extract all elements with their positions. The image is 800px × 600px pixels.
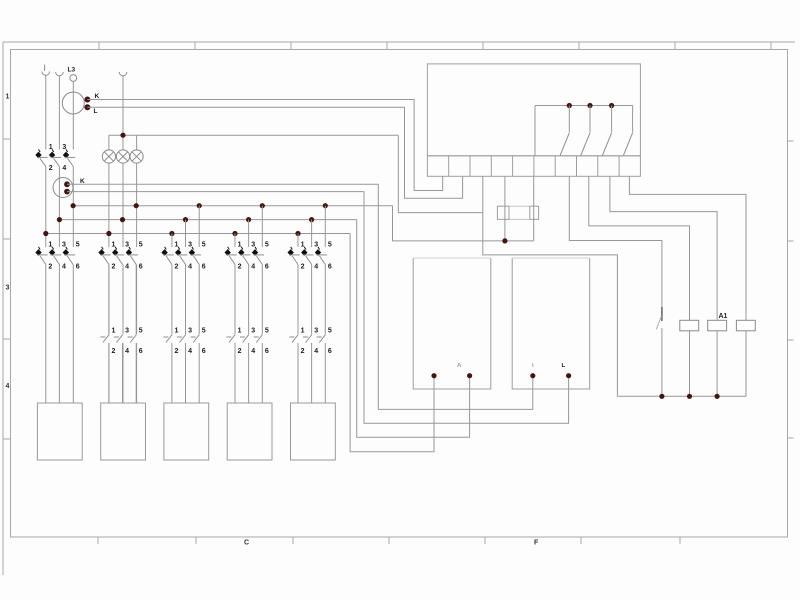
svg-text:4: 4 [251,264,255,271]
junction dot contact 1 [567,103,572,108]
svg-text:2: 2 [112,348,116,355]
coil K1 [680,320,699,331]
junction dot fuse node [502,238,507,243]
svg-text:2: 2 [238,348,242,355]
contactor K2 pole 1 [103,335,109,343]
wire T2 L to meter [67,192,569,424]
contactor K5 pole 3 [319,335,325,343]
contactor K5 pole 1 [292,335,298,343]
svg-text:2: 2 [175,264,179,271]
contactor K4 pole 3 [256,335,262,343]
svg-text:1: 1 [175,328,179,335]
svg-text:2: 2 [49,165,53,172]
svg-text:2: 2 [238,264,242,271]
load box M1 [37,403,82,460]
wire phase L3 vertical [72,81,74,149]
svg-text:5: 5 [265,328,269,335]
wire to load [198,343,200,403]
aux contact [656,316,661,330]
terminal dot P1 a [431,373,436,378]
wire group 4 pole 1 mid [234,265,236,335]
svg-text:3: 3 [188,241,192,248]
load box M5 [291,403,336,460]
junction dot bus L1 / group 3 [169,231,174,236]
breaker Q4 pole 3 [189,249,195,256]
wire stub group 3 pole 2 [185,220,187,247]
breaker Q4 pole 2 [175,249,181,256]
svg-text:3: 3 [188,328,192,335]
wire group 4 pole 3 mid [261,265,263,335]
wire lamp1 drop [108,135,110,150]
junction dot bus L3 / group 4 [260,203,265,208]
bus phase L2 horizontal [59,219,356,221]
breaker Q6 pole 1 [288,249,294,256]
svg-text:5: 5 [139,241,143,248]
svg-text:3: 3 [6,285,10,292]
breaker Q1 pole 3 [63,152,69,159]
wire stub group 4 pole 3 [261,206,263,247]
wire stub group 5 pole 3 [324,206,326,247]
wire fuse F1 vertical [504,176,506,241]
coil K2 [708,320,727,331]
load box M3 [164,403,209,460]
indicator lamp H1 [102,150,115,163]
svg-text:1: 1 [6,94,10,101]
wire strip to coil K1 [589,176,690,320]
indicator lamp H2 [116,150,129,163]
svg-text:A1: A1 [719,313,728,320]
wire group 5 pole 3 mid [324,265,326,335]
wire bus L2 to meter box 1 [357,220,470,438]
coil common bus [617,395,746,397]
wire fuse F2 vertical [533,176,535,241]
control unit box U1 [427,64,640,156]
load box M4 [227,403,272,460]
svg-text:6: 6 [202,348,206,355]
svg-text:L: L [94,108,98,115]
svg-text:2: 2 [112,264,116,271]
breaker Q4 pole 1 [161,249,167,256]
breaker Q5 pole 3 [252,249,258,256]
wire phase L2 vertical [58,76,60,150]
svg-text:4: 4 [125,264,129,271]
wire bus L1 to meter box 1 [350,234,434,452]
fuse holder F1 body [509,205,530,207]
svg-text:3: 3 [62,241,66,248]
wire T2 K to meter [67,184,533,409]
svg-text:L: L [562,363,566,369]
svg-text:4: 4 [314,264,318,271]
svg-text:6: 6 [202,264,206,271]
wire stub group 4 pole 1 [234,234,236,248]
wire stub group 5 pole 1 [297,234,299,248]
wire coil K1 bottom [689,331,691,397]
svg-text:4: 4 [6,383,10,390]
bottom ruler ticks [98,537,680,544]
junction dot bus L2 / group 5 [309,217,314,222]
lamp bus wire [109,134,398,136]
junction dot bus L3 / group 3 [197,203,202,208]
contact S3 [611,106,613,133]
current transformer T2 [53,178,73,198]
junction dot bus L1 / group 5 [295,231,300,236]
wire terminal strip to coil return bus [483,176,618,396]
wire T1 L to terminal strip [87,107,462,198]
svg-text:6: 6 [139,348,143,355]
internal bus wire [535,105,633,107]
terminal K of T2 [64,181,70,187]
wire strip to coil K3 [629,176,746,320]
svg-text:4: 4 [188,348,192,355]
svg-text:1: 1 [112,328,116,335]
load box M2 [101,403,146,460]
wire lamp3 drop [136,135,138,150]
svg-text:6: 6 [328,348,332,355]
svg-text:4: 4 [251,348,255,355]
wire to load [122,343,124,403]
svg-text:3: 3 [125,328,129,335]
terminal strip X1 [427,156,640,177]
junction dot bus L1 / group 4 [232,231,237,236]
left ruler ticks [3,139,11,439]
bus phase L1 horizontal [46,233,350,235]
wire bus L3 tail to fuse node [393,206,534,241]
contact S2 [589,106,591,133]
indicator lamp H3 [130,150,143,163]
wire group 4 pole 2 mid [248,265,250,335]
wire to load [297,343,299,403]
junction dot bus L3 / group 2 [134,203,139,208]
breaker Q3 pole 1 [98,249,104,256]
breaker Q5 pole 1 [225,249,231,256]
contactor K3 pole 2 [180,335,186,343]
svg-text:3: 3 [125,241,129,248]
wire group 5 pole 1 mid [297,265,299,335]
junction dot coil bus 1 [659,394,664,399]
breaker Q1 pole 1 [35,152,41,159]
svg-text:2: 2 [48,264,52,271]
junction dot bus L1 / group 2 [106,231,111,236]
svg-text:C: C [244,540,249,547]
wire to load [248,343,250,403]
terminal L1 [42,72,50,76]
junction dot bus L3 / group 1 [71,203,76,208]
drawing frame inner border [11,50,788,538]
bus phase L3 horizontal [73,205,392,207]
terminal N [119,72,127,76]
junction dot bus L3 / group 5 [323,203,328,208]
junction dot bus L2 / group 1 [57,217,62,222]
contact S1 [568,106,570,133]
svg-text:6: 6 [265,264,269,271]
svg-text:A: A [457,363,462,369]
wire to load [261,343,263,403]
wire strip to aux contact [569,176,662,321]
fuse holder F1 left cap [497,206,509,219]
coil K3 [736,320,755,331]
svg-text:2: 2 [175,348,179,355]
svg-text:4: 4 [125,348,129,355]
wire stub group 5 pole 2 [311,220,313,247]
wire to load [324,343,326,403]
contactor K5 pole 2 [306,335,312,343]
svg-text:5: 5 [328,328,332,335]
wire strip to coil K2 [610,176,717,320]
drawing frame outer top ruler line [3,41,795,43]
junction dot contact 2 [587,103,592,108]
wire group 2 pole 1 mid [108,265,110,335]
wire internal bus drop [534,106,536,156]
wire coil K3 bottom [745,331,747,397]
wire to load [185,343,187,403]
wire stub group 3 pole 3 [198,206,200,247]
top ruler ticks [99,42,771,50]
terminal dot P2 a [530,373,535,378]
terminal dot P1 b [467,373,472,378]
contact S4 [632,106,634,133]
contactor K3 pole 3 [193,335,199,343]
wire group 3 pole 2 mid [185,265,187,335]
wire group 3 pole 3 mid [198,265,200,335]
svg-text:6: 6 [328,264,332,271]
meter box P1 [413,258,491,389]
contactor K4 pole 2 [243,335,249,343]
breaker Q3 pole 3 [126,249,132,256]
breaker Q1 pole 2 [49,152,55,159]
wire to load [234,343,236,403]
svg-text:L3: L3 [68,67,76,74]
svg-text:K: K [95,93,100,100]
svg-text:5: 5 [139,328,143,335]
wire coil K2 bottom [716,331,718,397]
junction dot bus L2 / group 4 [246,217,251,222]
svg-text:4: 4 [314,348,318,355]
svg-text:3: 3 [251,241,255,248]
breaker Q2 pole 2 [49,249,55,256]
svg-text:6: 6 [76,264,80,271]
wire to load [311,343,313,403]
svg-text:6: 6 [139,264,143,271]
junction dot coil bus 2 [687,394,692,399]
wire group 5 pole 2 mid [311,265,313,335]
svg-text:6: 6 [265,348,269,355]
junction dot lamp bus / neutral [120,133,125,138]
breaker Q5 pole 2 [238,249,244,256]
svg-text:5: 5 [202,241,206,248]
drawing frame outer left ruler line [2,42,4,575]
svg-text:2: 2 [301,348,305,355]
contactor K2 pole 2 [117,335,123,343]
terminal L of T1 [84,104,90,110]
right ruler ticks [788,141,794,438]
junction dot bus L2 / group 2 [120,217,125,222]
wire group 3 pole 1 mid [171,265,173,335]
terminal L of T2 [64,189,70,195]
current transformer T1 [62,92,84,114]
terminal dot P2 b [566,373,571,378]
svg-text:5: 5 [265,241,269,248]
breaker Q6 pole 3 [315,249,321,256]
svg-text:1: 1 [301,328,305,335]
svg-text:5: 5 [76,241,80,248]
junction dot bus L2 / group 3 [183,217,188,222]
contactor K2 pole 3 [130,335,136,343]
breaker Q2 pole 1 [35,249,41,256]
breaker Q6 pole 2 [301,249,307,256]
terminal K of T1 [84,97,90,103]
svg-text:2: 2 [301,264,305,271]
terminal L2 [56,72,64,76]
fuse holder F1 right cap [530,206,539,219]
wire to load [135,343,137,403]
junction dot bus L1 / group 1 [43,231,48,236]
contactor K3 pole 1 [166,335,172,343]
wire stub group 3 pole 1 [171,234,173,248]
contactor K4 pole 1 [229,335,235,343]
svg-text:F: F [534,540,539,547]
wire to load [171,343,173,403]
wire lamp bus to control feed [398,135,483,212]
svg-text:5: 5 [328,241,332,248]
svg-text:4: 4 [188,264,192,271]
svg-text:4: 4 [62,165,66,172]
wire phase L1 vertical [45,75,47,149]
svg-text:3: 3 [314,241,318,248]
svg-text:3: 3 [314,328,318,335]
junction dot coil bus 3 [715,394,720,399]
breaker Q2 pole 3 [63,249,69,256]
wire stub group 4 pole 2 [248,220,250,247]
wire neutral vertical [122,76,124,150]
svg-text:5: 5 [202,328,206,335]
svg-text:3: 3 [251,328,255,335]
wire to load [108,343,110,403]
wire group 2 pole 3 mid [135,265,137,335]
svg-text:1: 1 [238,328,242,335]
breaker Q3 pole 2 [112,249,118,256]
wire T1 K to terminal strip [87,100,442,191]
meter box P2 [512,258,590,389]
svg-text:4: 4 [62,264,66,271]
junction dot contact 3 [609,103,614,108]
